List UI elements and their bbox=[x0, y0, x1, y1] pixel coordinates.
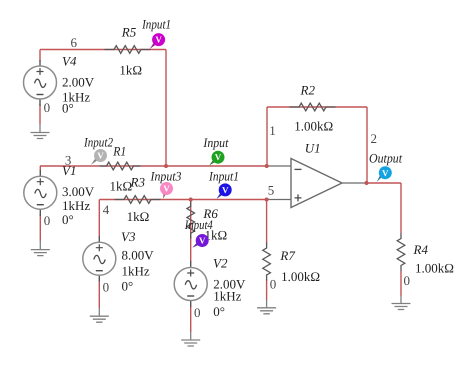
svg-text:1kΩ: 1kΩ bbox=[110, 179, 133, 194]
svg-text:1kHz: 1kHz bbox=[213, 288, 241, 303]
svg-text:0: 0 bbox=[103, 280, 110, 295]
svg-text:V: V bbox=[215, 152, 222, 162]
svg-text:Input: Input bbox=[202, 135, 228, 150]
svg-text:V2: V2 bbox=[213, 255, 228, 270]
svg-text:1kΩ: 1kΩ bbox=[127, 209, 150, 224]
junction row2 at R7 bbox=[265, 198, 269, 202]
svg-text:R2: R2 bbox=[300, 82, 316, 97]
node 5 bbox=[268, 183, 275, 198]
svg-text:R1: R1 bbox=[112, 143, 126, 158]
node 0 label V4 bbox=[44, 100, 51, 115]
wire V3 bottom to ground bbox=[98, 281, 100, 309]
wire V4 bottom to ground bbox=[39, 104, 41, 124]
svg-text:8.00V: 8.00V bbox=[122, 247, 155, 262]
svg-text:1kHz: 1kHz bbox=[62, 198, 90, 213]
node 0 label R4 bbox=[404, 273, 411, 288]
wire output row bbox=[367, 182, 402, 184]
svg-text:Input1: Input1 bbox=[141, 17, 171, 32]
ground below V1 bbox=[31, 241, 50, 256]
svg-text:1kΩ: 1kΩ bbox=[119, 62, 142, 77]
svg-text:V: V bbox=[97, 151, 104, 161]
op-amp U1 bbox=[267, 140, 367, 207]
svg-text:1.00kΩ: 1.00kΩ bbox=[294, 119, 333, 134]
ground below V3 bbox=[90, 308, 109, 323]
svg-text:Input2: Input2 bbox=[83, 134, 113, 149]
node 4 bbox=[103, 202, 110, 217]
voltage source V1 bbox=[24, 163, 95, 227]
node 0 label R7 bbox=[270, 276, 277, 291]
svg-text:V3: V3 bbox=[121, 229, 136, 244]
svg-text:0°: 0° bbox=[62, 101, 74, 116]
ground below V2 bbox=[181, 332, 200, 347]
wire R2 top row bbox=[267, 106, 367, 108]
resistor R5 bbox=[105, 25, 151, 78]
node 3 bbox=[65, 152, 72, 167]
voltage source V3 bbox=[83, 229, 154, 294]
wire V1 bottom to ground bbox=[39, 214, 41, 241]
svg-text:0: 0 bbox=[44, 213, 51, 228]
svg-text:0: 0 bbox=[194, 305, 201, 320]
svg-text:1.00kΩ: 1.00kΩ bbox=[415, 261, 454, 276]
svg-text:0°: 0° bbox=[213, 304, 225, 319]
wire R4 bottom to ground bbox=[400, 271, 402, 296]
svg-text:R5: R5 bbox=[121, 25, 137, 40]
wire vertical from R5 down to row1 junction bbox=[165, 50, 167, 167]
probe Input3 (pink) bbox=[150, 169, 182, 199]
svg-text:R3: R3 bbox=[130, 174, 146, 189]
svg-text:V: V bbox=[163, 184, 170, 194]
node 2 bbox=[371, 131, 378, 146]
svg-text:V4: V4 bbox=[62, 54, 77, 69]
ground below V4 bbox=[31, 124, 50, 139]
svg-text:2: 2 bbox=[371, 131, 378, 146]
wire R2 right vertical to output bbox=[366, 107, 368, 183]
svg-text:Input4: Input4 bbox=[184, 217, 213, 232]
wire R2 left vertical bbox=[266, 107, 268, 166]
resistor R1 bbox=[100, 143, 141, 193]
svg-text:2.00V: 2.00V bbox=[62, 74, 95, 89]
wire V3 stem down from row2 bbox=[98, 200, 100, 238]
probe Output (cyan) bbox=[369, 151, 402, 182]
node 1 bbox=[269, 123, 276, 138]
svg-text:V: V bbox=[199, 236, 206, 246]
svg-text:0: 0 bbox=[44, 100, 51, 115]
svg-text:V: V bbox=[222, 185, 229, 195]
svg-text:Output: Output bbox=[369, 151, 402, 166]
svg-text:1: 1 bbox=[269, 123, 276, 138]
probe Input2 (gray) bbox=[83, 134, 113, 164]
probe Input4 (purple) bbox=[184, 217, 213, 248]
svg-text:6: 6 bbox=[71, 35, 78, 50]
resistor R2 bbox=[290, 82, 336, 133]
resistor R3 bbox=[115, 174, 161, 224]
svg-text:1.00kΩ: 1.00kΩ bbox=[281, 269, 320, 284]
node 0 label V2 bbox=[194, 305, 201, 320]
svg-text:R7: R7 bbox=[279, 248, 295, 263]
resistor R6 bbox=[187, 201, 227, 243]
ground below R4 bbox=[392, 296, 411, 310]
wire top row from V4 to R5 corner bbox=[40, 49, 166, 51]
node 6 bbox=[71, 35, 78, 50]
wire R4 stem bbox=[400, 183, 402, 233]
svg-text:0°: 0° bbox=[62, 212, 74, 227]
resistor R4 bbox=[397, 233, 454, 276]
wire V4 top stub bbox=[39, 50, 41, 62]
svg-text:U1: U1 bbox=[305, 140, 321, 155]
svg-text:Input3: Input3 bbox=[150, 169, 182, 184]
svg-text:V: V bbox=[382, 168, 389, 178]
wire V1 top stub bbox=[39, 166, 41, 171]
svg-text:R4: R4 bbox=[413, 242, 429, 257]
junction row2 at R6 bbox=[189, 198, 193, 202]
svg-text:3.00V: 3.00V bbox=[62, 184, 95, 199]
voltage source V4 bbox=[24, 54, 95, 116]
svg-text:Input1: Input1 bbox=[208, 169, 239, 184]
svg-text:0: 0 bbox=[270, 276, 277, 291]
junction output bbox=[365, 181, 369, 185]
wire R7 bottom to ground bbox=[266, 280, 268, 301]
svg-text:3: 3 bbox=[65, 152, 72, 167]
svg-text:0°: 0° bbox=[122, 279, 134, 294]
node 0 label V1 bbox=[44, 213, 51, 228]
svg-text:5: 5 bbox=[268, 183, 275, 198]
probe Input1 (blue) bbox=[208, 169, 239, 199]
resistor R7 bbox=[263, 243, 320, 284]
ground below R7 bbox=[257, 300, 276, 314]
junction row1 at R5 drop bbox=[164, 164, 168, 168]
wire V2 bottom to ground bbox=[190, 306, 192, 332]
svg-text:0: 0 bbox=[404, 273, 411, 288]
junction row1 at op-amp branch bbox=[265, 164, 269, 168]
wire row2 from V3 corner to op-amp plus bbox=[99, 199, 267, 201]
wire row1 from V1 to op-amp minus bbox=[40, 165, 267, 167]
probe Input (green) bbox=[202, 135, 228, 166]
wire R6 stem from row2 to V2 bbox=[190, 200, 192, 263]
svg-text:4: 4 bbox=[103, 202, 110, 217]
voltage source V2 bbox=[174, 255, 246, 319]
probe Input1 (magenta, top) bbox=[141, 17, 171, 49]
wire R7 stem from plus junction bbox=[266, 200, 268, 244]
svg-text:V: V bbox=[155, 35, 162, 45]
svg-text:1kHz: 1kHz bbox=[122, 263, 150, 278]
node 0 label V3 bbox=[103, 280, 110, 295]
